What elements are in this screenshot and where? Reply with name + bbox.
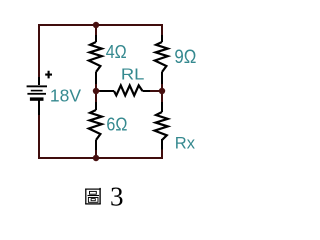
resistor 6ohm lead black bottom — [95, 140, 97, 150]
svg-text:Rx: Rx — [175, 134, 196, 152]
battery V1 lead bottom — [38, 101, 40, 116]
caption figure character Tu — [85, 188, 101, 204]
battery V1 plate long top — [27, 85, 47, 87]
battery V1 lead top — [38, 77, 40, 85]
resistor Rx lead black top — [161, 102, 163, 112]
svg-text:18V: 18V — [50, 86, 81, 106]
battery plus sign — [45, 71, 52, 79]
resistor 9ohm lead black top — [161, 35, 163, 42]
junction node middle-right of RL — [159, 88, 165, 94]
battery V1 plate long lower — [27, 93, 46, 95]
wire bottom rail — [39, 157, 162, 159]
resistor Rx lead black bottom — [161, 139, 163, 150]
svg-text:3: 3 — [110, 181, 124, 211]
svg-text:RL: RL — [121, 67, 145, 84]
wire middle horizontal (RL branch) — [96, 90, 162, 92]
svg-text:6Ω: 6Ω — [106, 114, 127, 134]
resistor 6ohm zigzag — [89, 110, 102, 140]
resistor RL lead black left — [100, 90, 114, 92]
resistor 9ohm zigzag — [155, 42, 168, 72]
svg-text:4Ω: 4Ω — [106, 42, 127, 62]
resistor 6ohm lead black top — [95, 102, 97, 110]
wire left rail lower — [38, 113, 40, 159]
svg-text:9Ω: 9Ω — [174, 47, 196, 68]
resistor 4ohm lead black bottom — [95, 72, 97, 84]
junction node middle-left of RL — [93, 88, 99, 94]
junction node top middle — [93, 22, 99, 28]
wire top rail — [39, 24, 162, 26]
resistor 9ohm lead black bottom — [161, 72, 163, 84]
resistor Rx zigzag — [155, 112, 168, 140]
battery V1 plate short — [31, 90, 43, 92]
resistor RL zigzag — [114, 85, 143, 95]
wire middle branch segments — [95, 24, 97, 159]
wire left rail upper — [38, 24, 40, 80]
resistor RL lead black right — [143, 90, 151, 92]
resistor 4ohm zigzag — [89, 42, 102, 72]
junction node bottom middle — [93, 155, 99, 161]
wire right branch segments — [161, 24, 163, 159]
resistor 4ohm lead black top — [95, 35, 97, 42]
battery V1 plate short thick bottom — [30, 97, 44, 100]
